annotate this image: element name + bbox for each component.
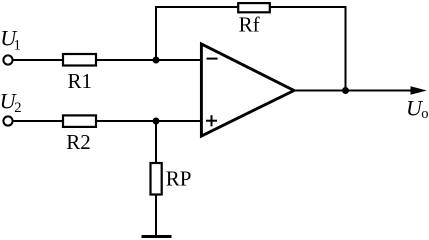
wire op-amp output	[294, 90, 414, 92]
wire RP to ground	[155, 194, 157, 236]
op-amp inverting pin mark (minus)	[207, 58, 218, 60]
resistor RP	[151, 163, 162, 195]
wire U1 to R1	[13, 59, 63, 61]
op-amp non-inverting pin mark (plus)	[206, 120, 217, 122]
svg-text:R1: R1	[68, 69, 93, 93]
node C (output junction)	[342, 87, 349, 94]
wire R2 to op-amp non-inverting input	[96, 120, 202, 122]
svg-text:1: 1	[14, 37, 21, 53]
wire node A up to feedback	[155, 7, 157, 60]
wire feedback down to output node	[345, 6, 347, 91]
resistor R1	[63, 54, 96, 66]
op-amp U1 triangle	[201, 44, 294, 136]
terminal U1 input	[3, 55, 12, 64]
resistor Rf	[238, 3, 270, 12]
terminal U2 input	[3, 116, 12, 125]
wire R1 to op-amp inverting input	[96, 59, 202, 61]
wire feedback top right segment	[269, 6, 347, 8]
svg-text:o: o	[421, 106, 428, 122]
wire node B down to RP	[155, 121, 157, 163]
svg-text:Rf: Rf	[239, 13, 260, 37]
svg-text:2: 2	[14, 100, 21, 116]
node B (non-inverting input junction)	[153, 118, 160, 125]
svg-text:RP: RP	[166, 167, 192, 191]
wire U2 to R2	[13, 120, 63, 122]
ground	[142, 235, 172, 238]
svg-text:R2: R2	[66, 130, 91, 154]
resistor R2	[63, 115, 96, 127]
wire feedback top left segment	[155, 6, 239, 8]
output arrow	[411, 86, 427, 94]
node A (inverting input junction)	[153, 57, 160, 64]
